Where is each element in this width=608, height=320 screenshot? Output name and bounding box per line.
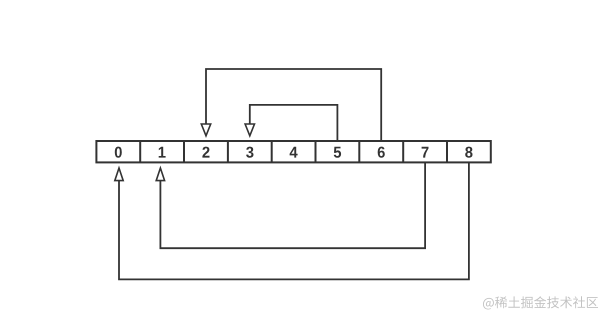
wire: arrow from cell 8 to cell 0 (119, 162, 469, 279)
node: cell index label 7 (422, 147, 429, 158)
wire: divider between cell 1 and cell 2 (183, 141, 185, 162)
node: cell index label 0 (115, 147, 122, 158)
wire: divider between cell 6 and cell 7 (402, 141, 404, 162)
watermark: @稀土掘金技术社区 (483, 296, 598, 309)
node: cell index label 2 (202, 147, 209, 158)
wire: divider between cell 2 and cell 3 (227, 141, 229, 162)
node: cell index label 6 (378, 147, 385, 158)
wire: arrow from cell 7 to cell 1 (160, 162, 425, 248)
node: cell index label 8 (465, 147, 472, 158)
wire: divider between cell 5 and cell 6 (358, 141, 360, 162)
wire: divider between cell 0 and cell 1 (139, 141, 141, 162)
wire: divider between cell 7 and cell 8 (446, 141, 448, 162)
node: cell index label 3 (246, 147, 253, 158)
array box outline (96, 141, 490, 162)
node: cell index label 5 (334, 147, 341, 158)
node: cell index label 1 (159, 147, 166, 158)
wire: divider between cell 3 and cell 4 (271, 141, 273, 162)
wire: arrow from cell 6 to cell 2 (206, 69, 381, 141)
wire: arrow from cell 5 to cell 3 (250, 105, 338, 141)
node: cell index label 4 (290, 147, 298, 158)
wire: divider between cell 4 and cell 5 (315, 141, 317, 162)
